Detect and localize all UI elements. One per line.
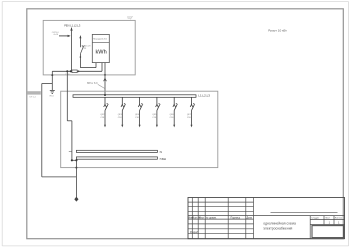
meter neutral stub xyxy=(101,63,103,72)
busbar L1,L2,L3 xyxy=(73,95,196,98)
wire: PEN riser xyxy=(71,28,73,72)
svg-text:Разраб.: Разраб. xyxy=(190,231,199,234)
svg-text:Подпись: Подпись xyxy=(231,216,241,219)
svg-text:C16: C16 xyxy=(170,117,175,119)
svg-text:Лист: Лист xyxy=(325,218,330,220)
svg-text:4x16: 4x16 xyxy=(53,34,59,36)
svg-text:QF6: QF6 xyxy=(170,114,175,116)
breaker QF3 xyxy=(121,97,126,125)
wire: PE bottom run xyxy=(42,176,77,178)
feeder labels and end arrows xyxy=(100,114,191,119)
junction on cabinet edge xyxy=(104,74,106,76)
wire: N riser xyxy=(66,71,68,121)
organization cell xyxy=(312,226,344,238)
feeder breakers group xyxy=(104,97,195,125)
wire: PEN horizontal xyxy=(52,70,102,72)
incoming supply cable (wall entry) xyxy=(27,91,40,94)
svg-text:C16: C16 xyxy=(118,117,123,119)
svg-text:ВА47-29: ВА47-29 xyxy=(82,44,91,47)
svg-text:C16: C16 xyxy=(100,117,105,119)
feeder end arrows xyxy=(104,125,193,128)
arrow on phase riser xyxy=(79,36,81,39)
breaker QF4 xyxy=(138,97,143,125)
svg-text:Лист: Лист xyxy=(199,216,205,219)
chevron on riser xyxy=(104,78,107,81)
wire to meter input xyxy=(80,67,96,69)
node: N branch xyxy=(66,70,68,72)
circuit breaker QF1 (main) xyxy=(80,47,83,54)
svg-text:C16: C16 xyxy=(187,117,192,119)
svg-text:QF5: QF5 xyxy=(152,114,157,116)
earth terminal end xyxy=(74,197,78,202)
svg-text:ГЗШ: ГЗШ xyxy=(160,157,166,161)
svg-text:L1,L2,L3: L1,L2,L3 xyxy=(198,93,210,97)
enclosure box: metering cabinet xyxy=(43,20,135,75)
svg-text:1: 1 xyxy=(329,220,331,224)
ground xyxy=(50,89,55,91)
svg-text:однолинейная схема: однолинейная схема xyxy=(263,222,296,226)
title block header row text xyxy=(189,216,253,219)
svg-text:Стадия: Стадия xyxy=(311,218,319,220)
verticals left part xyxy=(191,198,193,239)
wire: PE left riser down xyxy=(41,84,43,177)
N busbar xyxy=(76,150,157,152)
svg-text:С25: С25 xyxy=(82,48,87,50)
breaker QF2 xyxy=(104,97,109,125)
breaker QF6 xyxy=(173,97,178,125)
breaker QF5 xyxy=(156,97,161,125)
svg-text:QF7: QF7 xyxy=(187,114,192,116)
svg-text:R≤4: R≤4 xyxy=(50,95,55,98)
wire: PE down-left xyxy=(51,71,53,83)
node: PEN riser junction xyxy=(70,70,72,72)
wire: PE column xyxy=(75,160,77,198)
svg-text:QF3: QF3 xyxy=(118,114,123,116)
svg-text:КЛ 0,4: КЛ 0,4 xyxy=(29,96,36,98)
wire: phase riser xyxy=(79,36,81,48)
designation underline xyxy=(271,212,338,214)
junction on cabinet bottom edge xyxy=(51,74,53,76)
svg-text:N: N xyxy=(160,150,162,154)
wire below main breaker xyxy=(79,54,81,68)
link on PEN wire xyxy=(72,70,77,73)
N bar tick xyxy=(69,150,72,152)
ground electrode stub xyxy=(51,84,53,91)
kWh meter U1 xyxy=(92,34,109,62)
PE busbar GZSh xyxy=(76,157,157,159)
svg-text:C16: C16 xyxy=(152,117,157,119)
svg-text:электроснабжения: электроснабжения xyxy=(263,227,292,231)
svg-text:Листов: Листов xyxy=(335,218,343,220)
svg-text:QF4: QF4 xyxy=(135,114,140,116)
breaker QF7 xyxy=(190,97,195,125)
node on enclosure bottom xyxy=(75,167,77,169)
svg-text:Дата: Дата xyxy=(247,216,253,219)
svg-text:Ррасч 10 кВт: Ррасч 10 кВт xyxy=(268,28,287,32)
horizontals left part xyxy=(188,201,254,203)
node: riser to busbar xyxy=(104,94,106,96)
node: N riser to bars xyxy=(71,159,73,161)
right part xyxy=(254,215,345,217)
svg-text:ВВГнг 5х6: ВВГнг 5х6 xyxy=(87,83,98,85)
distribution board enclosure xyxy=(61,91,218,167)
svg-text:№ докум.: № докум. xyxy=(206,216,217,219)
meter output riser to busbar xyxy=(104,63,106,95)
svg-text:kWh: kWh xyxy=(96,50,107,56)
title block xyxy=(188,198,345,239)
svg-text:QF2: QF2 xyxy=(100,114,105,116)
svg-text:ЩУ: ЩУ xyxy=(128,15,134,19)
svg-text:PEN L1,L2,L3: PEN L1,L2,L3 xyxy=(64,24,81,28)
node: PE column top xyxy=(75,159,77,161)
stage table header xyxy=(311,218,342,220)
svg-text:Меркурий 201: Меркурий 201 xyxy=(93,38,107,41)
arrow on PEN riser xyxy=(70,27,72,30)
svg-text:1: 1 xyxy=(338,220,340,224)
svg-text:C16: C16 xyxy=(135,117,140,119)
